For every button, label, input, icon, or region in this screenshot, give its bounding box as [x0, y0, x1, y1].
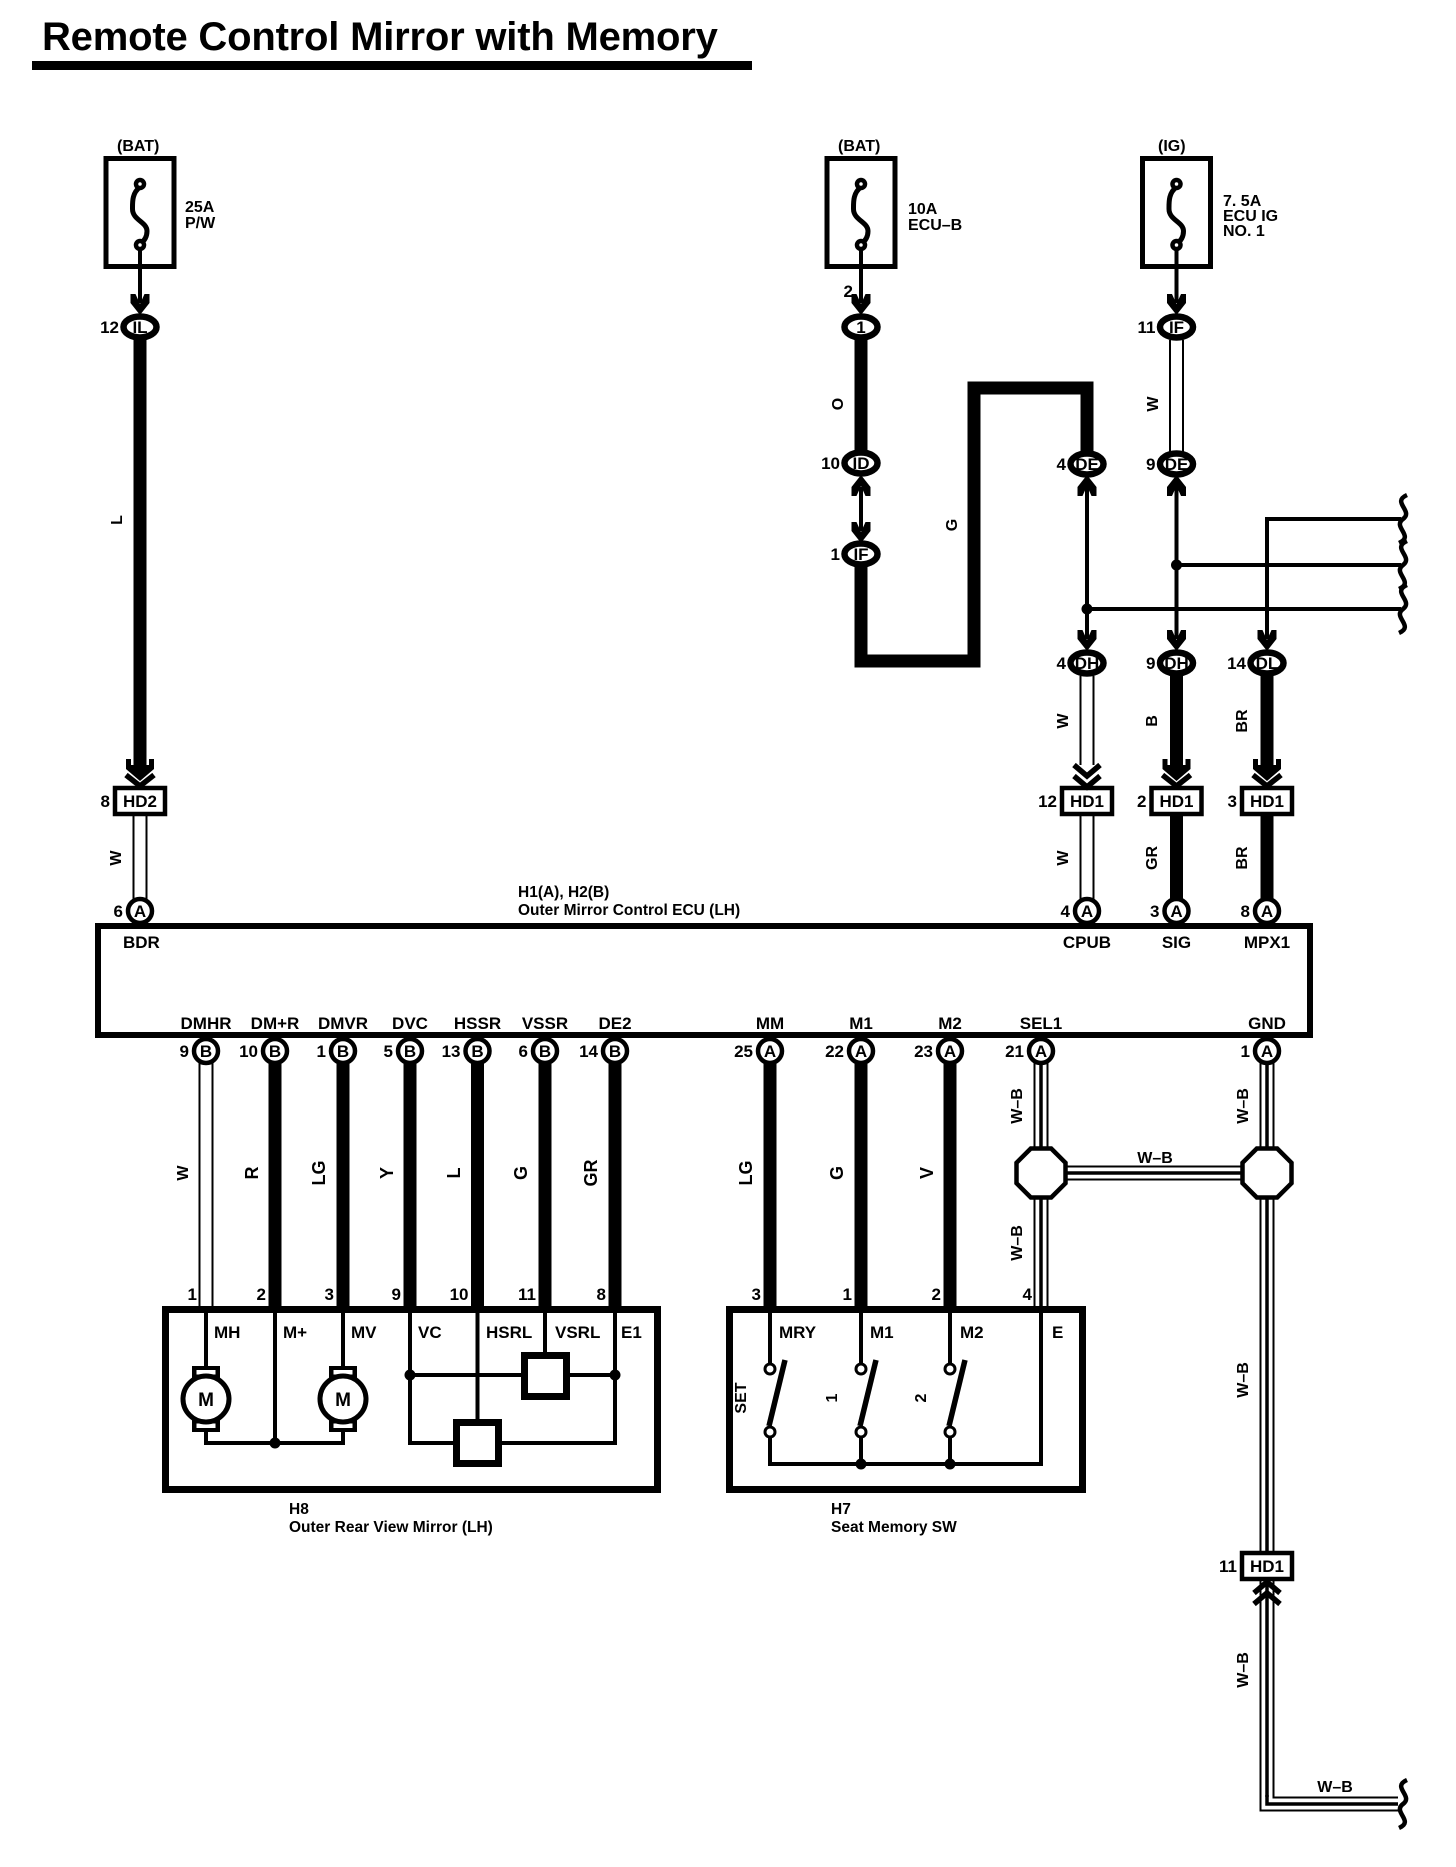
- connector B pin 13: [442, 1039, 490, 1063]
- svg-text:B: B: [404, 1042, 416, 1061]
- svg-text:8: 8: [1241, 902, 1250, 921]
- wire DE4 to DH4: [1085, 480, 1089, 643]
- wire ID to IF: [859, 480, 863, 538]
- svg-text:A: A: [1081, 902, 1093, 921]
- switch SET: [733, 1306, 785, 1466]
- svg-text:25: 25: [734, 1042, 753, 1061]
- wire DL14 drop: [1265, 517, 1269, 643]
- svg-text:Outer Rear View Mirror (LH): Outer Rear View Mirror (LH): [289, 1519, 493, 1536]
- junction dot E1: [610, 1370, 621, 1381]
- junction HD1 pin 3: [1228, 788, 1292, 814]
- svg-text:B: B: [1144, 715, 1161, 727]
- svg-text:HD1: HD1: [1070, 792, 1104, 811]
- svg-text:Seat Memory SW: Seat Memory SW: [831, 1519, 957, 1536]
- junction dot VC: [405, 1370, 416, 1381]
- net line to right bottom: [1087, 607, 1401, 611]
- wire W-B GND to HD1: [1235, 1197, 1274, 1552]
- svg-text:M2: M2: [960, 1323, 984, 1342]
- svg-text:W: W: [1055, 713, 1072, 729]
- connector DL pin 14: [1227, 653, 1283, 674]
- svg-text:1: 1: [843, 1285, 852, 1304]
- svg-text:MV: MV: [351, 1323, 377, 1342]
- svg-text:BR: BR: [1234, 846, 1251, 870]
- svg-text:HSRL: HSRL: [486, 1323, 532, 1342]
- svg-text:W–B: W–B: [1137, 1150, 1173, 1167]
- connector A pin 23: [914, 1039, 962, 1063]
- wire W-B between junctions: [1064, 1150, 1244, 1180]
- wire W-B octagon left to H7: [1009, 1197, 1048, 1306]
- wire VC branch: [410, 1373, 524, 1377]
- connector A pin 6 (BDR): [114, 899, 152, 923]
- svg-text:14: 14: [1227, 654, 1246, 673]
- svg-text:9: 9: [1146, 654, 1155, 673]
- wire DE9 to DH9: [1175, 480, 1179, 643]
- svg-text:VC: VC: [418, 1323, 442, 1342]
- svg-text:4: 4: [1057, 455, 1067, 474]
- svg-text:IL: IL: [132, 318, 147, 337]
- svg-text:G: G: [944, 519, 961, 531]
- svg-text:HSSR: HSSR: [454, 1014, 501, 1033]
- junction dot M2 switch: [945, 1459, 956, 1470]
- connector DE pin 9: [1146, 454, 1193, 475]
- wire MV internal: [341, 1306, 345, 1368]
- connector B pin 5: [384, 1039, 422, 1063]
- VSRL resistor: [525, 1356, 567, 1397]
- connector IF pin 11: [1138, 317, 1193, 338]
- connector A pin 25: [734, 1039, 782, 1063]
- connector B pin 1: [317, 1039, 355, 1063]
- svg-text:4: 4: [1023, 1285, 1033, 1304]
- svg-text:8: 8: [101, 792, 110, 811]
- connector IL pin 12: [100, 317, 156, 338]
- svg-text:Remote Control Mirror with Mem: Remote Control Mirror with Memory: [42, 15, 719, 59]
- svg-text:5: 5: [384, 1042, 393, 1061]
- svg-text:B: B: [337, 1042, 349, 1061]
- svg-text:W: W: [1145, 396, 1162, 412]
- wire W-B SEL1: [1009, 1063, 1048, 1150]
- arrow up into DE4: [1078, 475, 1097, 496]
- arrow down into IF: [852, 522, 871, 543]
- chevrons into HD1-12: [1074, 776, 1100, 787]
- svg-text:E: E: [1052, 1323, 1063, 1342]
- wire G: [861, 388, 1087, 661]
- svg-text:W–B: W–B: [1235, 1088, 1252, 1124]
- svg-text:W–B: W–B: [1317, 1779, 1353, 1796]
- svg-text:NO. 1: NO. 1: [1223, 223, 1265, 240]
- Seat Memory SW box H7: [730, 1310, 1083, 1490]
- wire GR: [581, 1063, 615, 1306]
- svg-text:21: 21: [1005, 1042, 1024, 1061]
- svg-text:HD1: HD1: [1250, 792, 1284, 811]
- svg-text:M2: M2: [938, 1014, 962, 1033]
- connector A pin 1: [1241, 1039, 1279, 1063]
- wire B DH9 to HD1: [1144, 676, 1177, 766]
- connector B pin 10: [239, 1039, 287, 1063]
- svg-text:SEL1: SEL1: [1020, 1014, 1063, 1033]
- svg-text:10: 10: [821, 454, 840, 473]
- svg-text:A: A: [134, 902, 146, 921]
- wire L: [444, 1063, 478, 1306]
- arrow up into ID: [852, 475, 871, 496]
- svg-text:A: A: [764, 1042, 776, 1061]
- svg-text:MH: MH: [214, 1323, 240, 1342]
- svg-text:9: 9: [180, 1042, 189, 1061]
- svg-text:DE: DE: [1075, 455, 1099, 474]
- arrow into DH4: [1078, 630, 1097, 651]
- svg-text:A: A: [1261, 1042, 1273, 1061]
- svg-text:H7: H7: [831, 1501, 851, 1518]
- wire MH internal: [204, 1306, 208, 1368]
- net line to right mid: [1177, 563, 1402, 567]
- net line to right top: [1267, 517, 1401, 521]
- junction dot DE4 net: [1082, 604, 1093, 615]
- junction HD1 pin 2: [1137, 788, 1201, 814]
- wire W to CPUB: [1055, 814, 1094, 900]
- svg-text:BDR: BDR: [123, 933, 160, 952]
- svg-text:DL: DL: [1256, 654, 1279, 673]
- wire O: [830, 340, 861, 451]
- svg-text:6: 6: [519, 1042, 528, 1061]
- connector A pin 21: [1005, 1039, 1053, 1063]
- svg-text:HD2: HD2: [123, 792, 157, 811]
- arrow into HD1-2: [1163, 759, 1191, 781]
- svg-text:M+: M+: [283, 1323, 307, 1342]
- svg-text:B: B: [200, 1042, 212, 1061]
- connector B pin 14: [579, 1039, 627, 1063]
- svg-text:3: 3: [752, 1285, 761, 1304]
- svg-text:GR: GR: [581, 1159, 601, 1186]
- connector 1: [845, 317, 878, 338]
- wire M+ internal: [273, 1306, 277, 1443]
- svg-text:10: 10: [239, 1042, 258, 1061]
- svg-text:MM: MM: [756, 1014, 784, 1033]
- arrow into DH9: [1167, 630, 1186, 651]
- connector A pin 8 (MPX1): [1241, 899, 1279, 923]
- svg-text:22: 22: [825, 1042, 844, 1061]
- svg-text:(BAT): (BAT): [838, 138, 880, 155]
- svg-text:L: L: [444, 1168, 464, 1179]
- svg-text:2: 2: [257, 1285, 266, 1304]
- wire W DH4 to HD1: [1055, 676, 1094, 765]
- svg-text:SET: SET: [733, 1382, 750, 1413]
- svg-text:1: 1: [831, 545, 840, 564]
- fuse 7.5A ECU IG NO.1 (IG): [1143, 138, 1279, 308]
- arrow into IL: [131, 294, 150, 315]
- connector A pin 4 (CPUB): [1061, 899, 1099, 923]
- arrow into HD2: [126, 759, 154, 781]
- svg-text:12: 12: [1038, 792, 1057, 811]
- svg-text:BR: BR: [1234, 709, 1251, 733]
- svg-text:12: 12: [100, 318, 119, 337]
- svg-text:11: 11: [518, 1285, 536, 1304]
- svg-text:R: R: [242, 1167, 262, 1180]
- svg-text:3: 3: [325, 1285, 334, 1304]
- svg-text:A: A: [855, 1042, 867, 1061]
- svg-text:8: 8: [597, 1285, 606, 1304]
- wire W to BDR: [108, 814, 147, 900]
- svg-text:DH: DH: [1075, 654, 1100, 673]
- svg-text:2: 2: [932, 1285, 941, 1304]
- HSRL resistor: [457, 1423, 499, 1464]
- connector DH pin 9: [1146, 653, 1193, 674]
- svg-text:Outer Mirror Control ECU (LH): Outer Mirror Control ECU (LH): [518, 902, 740, 919]
- switch 2: [913, 1306, 965, 1466]
- wire BR DL14 to HD1: [1234, 676, 1267, 766]
- connector B pin 6: [519, 1039, 557, 1063]
- wire HSRL resistor to E1: [499, 1441, 615, 1445]
- connector DH pin 4: [1057, 653, 1104, 674]
- svg-text:IF: IF: [853, 545, 868, 564]
- switch 1: [824, 1306, 876, 1466]
- svg-text:10A: 10A: [908, 201, 938, 218]
- connector B pin 9: [180, 1039, 218, 1063]
- svg-text:IF: IF: [1169, 318, 1184, 337]
- svg-text:W–B: W–B: [1009, 1225, 1026, 1261]
- wire E1 internal: [613, 1306, 617, 1445]
- svg-text:DE: DE: [1165, 455, 1189, 474]
- svg-text:6: 6: [114, 902, 123, 921]
- svg-text:B: B: [269, 1042, 281, 1061]
- svg-text:A: A: [1261, 902, 1273, 921]
- wire BR to MPX1: [1234, 814, 1267, 900]
- svg-text:ECU–B: ECU–B: [908, 217, 962, 234]
- svg-text:HD1: HD1: [1250, 1557, 1284, 1576]
- svg-text:B: B: [609, 1042, 621, 1061]
- wire GR to SIG: [1144, 814, 1177, 900]
- wire LG: [736, 1063, 770, 1306]
- junction octagon left: [1017, 1149, 1066, 1198]
- svg-text:LG: LG: [736, 1161, 756, 1186]
- wire L: [109, 340, 140, 766]
- svg-text:M1: M1: [849, 1014, 873, 1033]
- svg-text:11: 11: [1138, 318, 1156, 337]
- svg-text:A: A: [1035, 1042, 1047, 1061]
- motor M horizontal mirror: [183, 1366, 229, 1432]
- svg-text:(IG): (IG): [1158, 138, 1186, 155]
- svg-text:13: 13: [442, 1042, 461, 1061]
- break symbol bottom right: [1399, 1780, 1407, 1828]
- svg-text:B: B: [471, 1042, 483, 1061]
- svg-text:LG: LG: [309, 1161, 329, 1186]
- svg-text:1: 1: [188, 1285, 197, 1304]
- arrow into connector 1: [852, 294, 871, 315]
- svg-text:H8: H8: [289, 1501, 309, 1518]
- svg-text:HD1: HD1: [1159, 792, 1193, 811]
- wire VC to HSRL resistor: [410, 1441, 456, 1445]
- svg-text:O: O: [830, 398, 847, 410]
- svg-text:W: W: [175, 1165, 192, 1181]
- junction HD2 pin 8: [101, 788, 165, 814]
- svg-text:10: 10: [450, 1285, 469, 1304]
- break symbol bottom: [1399, 585, 1407, 633]
- svg-text:25A: 25A: [185, 199, 215, 216]
- motor M vertical mirror: [320, 1366, 366, 1432]
- svg-text:9: 9: [392, 1285, 401, 1304]
- wire V: [917, 1063, 950, 1306]
- arrow into IF(11): [1167, 294, 1186, 315]
- chevrons into HD1-11: [1254, 1582, 1280, 1593]
- fuse 10A ECU-B (BAT): [827, 138, 962, 308]
- connector IF pin 1: [831, 544, 878, 565]
- wire switch common: [768, 1462, 1041, 1466]
- svg-text:P/W: P/W: [185, 215, 216, 232]
- connector ID pin 10: [821, 453, 877, 474]
- svg-text:V: V: [917, 1167, 937, 1179]
- svg-text:4: 4: [1057, 654, 1067, 673]
- svg-text:1: 1: [317, 1042, 326, 1061]
- wire R: [242, 1063, 275, 1306]
- connector A pin 22: [825, 1039, 873, 1063]
- svg-text:VSRL: VSRL: [555, 1323, 600, 1342]
- svg-text:VSSR: VSSR: [522, 1014, 568, 1033]
- junction octagon right: [1243, 1149, 1292, 1198]
- connector DE pin 4: [1057, 454, 1104, 475]
- svg-text:MRY: MRY: [779, 1323, 817, 1342]
- svg-text:2: 2: [1137, 792, 1146, 811]
- fuse 25A P/W (BAT): [106, 138, 216, 308]
- svg-text:14: 14: [579, 1042, 598, 1061]
- wire LG: [309, 1063, 343, 1306]
- svg-text:ID: ID: [853, 454, 870, 473]
- wire motor commons: [204, 1432, 208, 1443]
- wire W-B corner to right: [1261, 1779, 1399, 1811]
- svg-text:G: G: [511, 1166, 531, 1180]
- svg-text:W: W: [1055, 850, 1072, 866]
- svg-text:DVC: DVC: [392, 1014, 428, 1033]
- wire G: [511, 1063, 545, 1306]
- svg-text:M1: M1: [870, 1323, 894, 1342]
- wire HSRL internal: [476, 1306, 480, 1422]
- wire VSRL internal: [543, 1306, 547, 1355]
- svg-text:L: L: [109, 515, 126, 525]
- svg-text:1: 1: [1241, 1042, 1250, 1061]
- wire W DMHR: [175, 1063, 213, 1306]
- svg-text:W: W: [108, 850, 125, 866]
- svg-text:W–B: W–B: [1235, 1362, 1252, 1398]
- wire W-B GND: [1235, 1063, 1274, 1150]
- svg-text:2: 2: [913, 1393, 930, 1402]
- wire VC internal: [408, 1306, 412, 1445]
- arrow into DL14: [1258, 630, 1277, 651]
- svg-text:DMHR: DMHR: [181, 1014, 232, 1033]
- svg-text:11: 11: [1219, 1557, 1237, 1576]
- svg-text:M: M: [335, 1390, 351, 1411]
- svg-text:23: 23: [914, 1042, 933, 1061]
- svg-text:H1(A), H2(B): H1(A), H2(B): [518, 884, 609, 901]
- svg-text:GR: GR: [1144, 846, 1161, 870]
- connector A pin 3 (SIG): [1150, 899, 1188, 923]
- wire W-B HD1 down: [1235, 1579, 1274, 1797]
- svg-text:E1: E1: [621, 1323, 642, 1342]
- svg-text:DMVR: DMVR: [318, 1014, 368, 1033]
- svg-text:A: A: [1170, 902, 1182, 921]
- svg-text:W–B: W–B: [1235, 1652, 1252, 1688]
- svg-text:3: 3: [1150, 902, 1159, 921]
- junction dot DE9 net: [1171, 560, 1182, 571]
- svg-text:4: 4: [1061, 902, 1071, 921]
- break symbol mid: [1399, 541, 1407, 589]
- wire VSRL resistor to E1: [567, 1373, 615, 1377]
- svg-text:DE2: DE2: [598, 1014, 631, 1033]
- svg-text:1: 1: [824, 1393, 841, 1402]
- svg-text:W–B: W–B: [1009, 1088, 1026, 1124]
- wire G: [827, 1063, 861, 1306]
- svg-text:1: 1: [856, 318, 865, 337]
- Outer Mirror Control ECU box: [98, 926, 1310, 1035]
- svg-text:M: M: [198, 1390, 214, 1411]
- svg-text:A: A: [944, 1042, 956, 1061]
- arrow into HD1-3: [1253, 759, 1281, 781]
- wire W (IG): [1145, 340, 1183, 452]
- svg-text:CPUB: CPUB: [1063, 933, 1111, 952]
- svg-text:DH: DH: [1164, 654, 1189, 673]
- wire E internal: [1039, 1306, 1043, 1466]
- svg-text:3: 3: [1228, 792, 1237, 811]
- wire Y: [377, 1063, 410, 1306]
- svg-text:G: G: [827, 1166, 847, 1180]
- Outer Rear View Mirror box H8: [166, 1310, 658, 1490]
- svg-text:MPX1: MPX1: [1244, 933, 1290, 952]
- svg-text:9: 9: [1146, 455, 1155, 474]
- svg-text:DM+R: DM+R: [251, 1014, 300, 1033]
- svg-text:SIG: SIG: [1162, 933, 1191, 952]
- arrow up into DE9: [1167, 475, 1186, 496]
- svg-text:Y: Y: [377, 1167, 397, 1179]
- junction dot M+: [270, 1438, 281, 1449]
- svg-text:(BAT): (BAT): [117, 138, 159, 155]
- junction HD1 pin 11: [1219, 1553, 1292, 1579]
- break symbol top: [1399, 495, 1407, 543]
- junction HD1 pin 12: [1038, 788, 1112, 814]
- svg-text:B: B: [539, 1042, 551, 1061]
- svg-text:GND: GND: [1248, 1014, 1286, 1033]
- junction dot M1 switch: [856, 1459, 867, 1470]
